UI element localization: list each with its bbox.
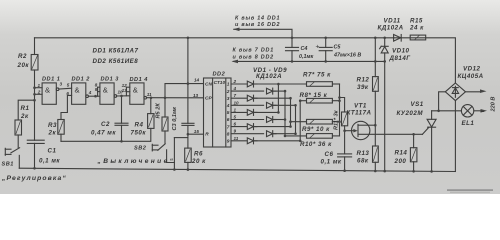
svg-text:&: & xyxy=(103,85,108,94)
svg-text:6: 6 xyxy=(234,122,237,127)
svg-text:8: 8 xyxy=(227,131,230,137)
svg-text:„Регулировка“: „Регулировка“ xyxy=(1,175,67,182)
svg-text:C4: C4 xyxy=(301,46,308,52)
svg-text:R11* 3к: R11* 3к xyxy=(334,109,340,130)
svg-text:2: 2 xyxy=(226,89,230,95)
svg-text:и выв 8 DD2: и выв 8 DD2 xyxy=(233,54,274,60)
svg-text:1: 1 xyxy=(227,82,230,88)
svg-text:Д814Г: Д814Г xyxy=(389,55,412,62)
svg-text:14: 14 xyxy=(194,78,200,83)
svg-text:R3: R3 xyxy=(48,122,57,129)
svg-text:9: 9 xyxy=(234,129,237,134)
svg-text:4: 4 xyxy=(88,90,92,95)
svg-text:VS1: VS1 xyxy=(411,101,424,108)
svg-text:20 к: 20 к xyxy=(191,158,206,165)
svg-text:DD1 2: DD1 2 xyxy=(72,76,91,82)
svg-text:CN: CN xyxy=(205,82,212,88)
svg-text:13: 13 xyxy=(122,88,128,93)
svg-text:20к: 20к xyxy=(17,62,30,69)
svg-text:1: 1 xyxy=(234,107,237,112)
svg-text:VD12: VD12 xyxy=(463,66,481,73)
svg-text:10: 10 xyxy=(234,100,240,105)
svg-text:11: 11 xyxy=(234,136,239,141)
svg-text:9: 9 xyxy=(95,87,98,92)
svg-text:КТ117А: КТ117А xyxy=(347,110,372,117)
svg-text:13: 13 xyxy=(193,93,199,98)
svg-text:DD2: DD2 xyxy=(213,72,226,78)
svg-text:0,1 мк: 0,1 мк xyxy=(321,159,342,166)
svg-text:R13: R13 xyxy=(357,150,370,157)
svg-text:2: 2 xyxy=(37,90,41,95)
svg-text:R6: R6 xyxy=(194,151,203,158)
svg-text:24 к: 24 к xyxy=(409,25,424,32)
svg-text:200: 200 xyxy=(394,158,407,165)
svg-text:DD1 1: DD1 1 xyxy=(42,76,60,82)
svg-text:15: 15 xyxy=(194,129,200,134)
svg-text:&: & xyxy=(133,85,138,94)
svg-text:6: 6 xyxy=(66,91,69,96)
svg-text:VD10: VD10 xyxy=(392,48,410,55)
svg-text:68к: 68к xyxy=(357,158,369,165)
svg-text:3: 3 xyxy=(60,82,63,87)
svg-text:DD1 3: DD1 3 xyxy=(101,76,120,82)
svg-text:КЦ405А: КЦ405А xyxy=(458,73,484,80)
svg-text:VT1: VT1 xyxy=(354,103,367,110)
svg-text:R9* 10 к: R9* 10 к xyxy=(302,126,330,133)
svg-text:4: 4 xyxy=(226,103,230,109)
svg-text:220 В: 220 В xyxy=(491,97,497,113)
svg-text:&: & xyxy=(45,85,50,94)
svg-text:0,47 мк: 0,47 мк xyxy=(91,130,116,137)
svg-text:R8* 15 к: R8* 15 к xyxy=(300,92,328,99)
svg-text:R5 2К: R5 2К xyxy=(156,103,162,119)
svg-text:C2: C2 xyxy=(101,121,110,128)
svg-text:КД102А: КД102А xyxy=(378,25,404,32)
svg-text:и выв 16 DD2: и выв 16 DD2 xyxy=(235,22,280,28)
svg-text:0,1 мк: 0,1 мк xyxy=(39,158,60,165)
svg-text:EL1: EL1 xyxy=(462,120,475,127)
svg-text:R14: R14 xyxy=(395,150,408,157)
svg-text:К выв 14 DD1: К выв 14 DD1 xyxy=(235,15,280,21)
svg-text:750к: 750к xyxy=(131,130,147,137)
svg-text:R2: R2 xyxy=(18,53,27,60)
svg-text:&: & xyxy=(75,85,80,94)
svg-text:2к: 2к xyxy=(20,113,29,120)
svg-text:С3 0,1мк: С3 0,1мк xyxy=(172,106,178,131)
svg-text:~: ~ xyxy=(480,107,485,116)
svg-text:DD1 4: DD1 4 xyxy=(130,77,149,83)
svg-text:SB1: SB1 xyxy=(2,162,14,168)
svg-text:3: 3 xyxy=(227,96,230,102)
svg-text:CP: CP xyxy=(205,96,212,102)
svg-text:5: 5 xyxy=(67,82,70,87)
svg-text:R15: R15 xyxy=(410,18,423,25)
svg-text:VD11: VD11 xyxy=(384,18,401,25)
svg-text:К выв 7 DD1: К выв 7 DD1 xyxy=(233,48,275,54)
svg-text:„Выключение“: „Выключение“ xyxy=(97,158,176,165)
svg-text:СТ10: СТ10 xyxy=(214,80,226,86)
svg-text:1: 1 xyxy=(38,83,41,88)
svg-text:6: 6 xyxy=(227,117,230,123)
svg-text:39к: 39к xyxy=(357,84,369,91)
svg-text:R: R xyxy=(205,132,209,138)
svg-text:C1: C1 xyxy=(48,148,57,155)
svg-text:КУ202М: КУ202М xyxy=(397,110,424,117)
svg-text:КД102А: КД102А xyxy=(256,73,282,80)
svg-text:5: 5 xyxy=(234,115,237,120)
svg-text:DD1 К561ЛА7: DD1 К561ЛА7 xyxy=(93,47,139,54)
svg-text:C5: C5 xyxy=(334,45,342,51)
svg-text:0,1мк: 0,1мк xyxy=(299,54,313,60)
svg-text:C6: C6 xyxy=(325,151,334,158)
svg-text:+: + xyxy=(316,44,320,51)
svg-text:11: 11 xyxy=(147,92,152,97)
svg-text:R7* 75 к: R7* 75 к xyxy=(303,71,331,78)
svg-text:R10* 36 к: R10* 36 к xyxy=(300,141,332,148)
svg-text:4: 4 xyxy=(233,86,237,91)
svg-text:9: 9 xyxy=(227,139,230,145)
svg-text:47мк×16 В: 47мк×16 В xyxy=(333,53,361,59)
svg-text:R4: R4 xyxy=(135,122,144,129)
svg-text:DD2 К561ИЕ8: DD2 К561ИЕ8 xyxy=(93,58,139,65)
svg-text:R12: R12 xyxy=(357,77,370,84)
svg-text:SB2: SB2 xyxy=(134,146,147,152)
svg-text:7: 7 xyxy=(227,124,230,130)
svg-text:2: 2 xyxy=(233,79,237,84)
svg-text:5: 5 xyxy=(227,110,230,116)
svg-text:2к: 2к xyxy=(48,130,57,137)
svg-text:7: 7 xyxy=(234,93,237,98)
svg-text:R1: R1 xyxy=(21,105,30,112)
